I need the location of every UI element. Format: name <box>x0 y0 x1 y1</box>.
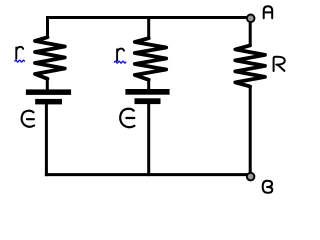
battery E2 <box>125 89 169 104</box>
label r (resistor r1 value) <box>16 47 23 59</box>
label r (resistor r2 value) <box>117 49 124 61</box>
label B (terminal B) <box>263 181 273 193</box>
label A (terminal A) <box>264 6 273 18</box>
resistor R <box>235 45 265 86</box>
label R (resistor R value) <box>274 57 285 71</box>
wire: branch 1 top vertical drop <box>46 16 49 38</box>
wire: battery 1 to bottom bus <box>45 104 48 177</box>
node A terminal <box>247 14 255 22</box>
wire: resistor r1 to battery 1 <box>46 78 49 92</box>
wire: resistor r2 to battery 2 <box>147 79 150 92</box>
wire: branch 2 top vertical drop <box>147 16 150 39</box>
wire: resistor R to terminal B <box>249 86 252 174</box>
battery E1 <box>26 89 71 104</box>
label epsilon (battery 2 value) <box>120 109 134 127</box>
resistor r2 <box>135 38 166 80</box>
wire: top bus from branch 1 to terminal A <box>46 16 251 19</box>
label epsilon (battery 1 value) <box>22 111 35 127</box>
wire: bottom bus from branch 1 to terminal B <box>45 173 251 176</box>
resistor r1 <box>35 37 65 79</box>
wire: terminal A to resistor R <box>249 20 252 47</box>
wire: battery 2 to bottom bus <box>147 104 150 176</box>
spellcheck underline under label r1 <box>15 60 24 62</box>
spellcheck underline under label r2 <box>114 61 125 63</box>
node B terminal <box>247 173 255 181</box>
